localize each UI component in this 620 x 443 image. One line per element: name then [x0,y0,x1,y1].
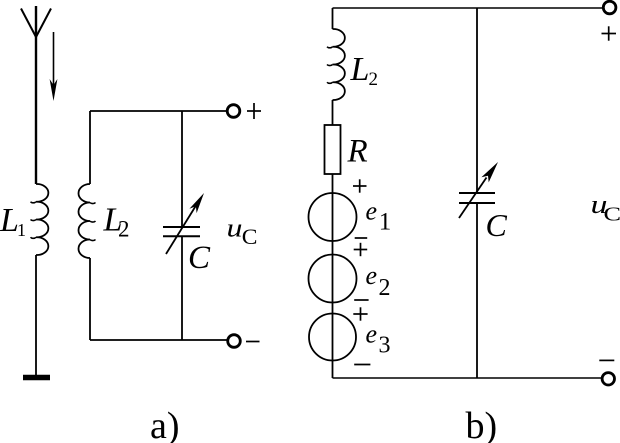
svg-text:2: 2 [118,217,130,242]
svg-text:3: 3 [379,333,391,359]
svg-text:2: 2 [379,275,391,301]
svg-text:L: L [350,51,370,88]
svg-text:a): a) [150,405,180,443]
svg-text:1: 1 [17,220,26,240]
svg-text:e: e [366,196,378,225]
svg-text:C: C [486,207,508,243]
svg-text:u: u [227,214,243,243]
svg-text:C: C [242,224,258,249]
svg-text:C: C [188,240,211,276]
svg-text:C: C [604,204,620,226]
svg-text:1: 1 [379,208,392,235]
svg-text:e: e [366,320,378,349]
svg-text:R: R [347,134,368,170]
svg-text:e: e [366,261,378,290]
svg-text:b): b) [466,405,498,443]
svg-text:2: 2 [369,69,379,90]
